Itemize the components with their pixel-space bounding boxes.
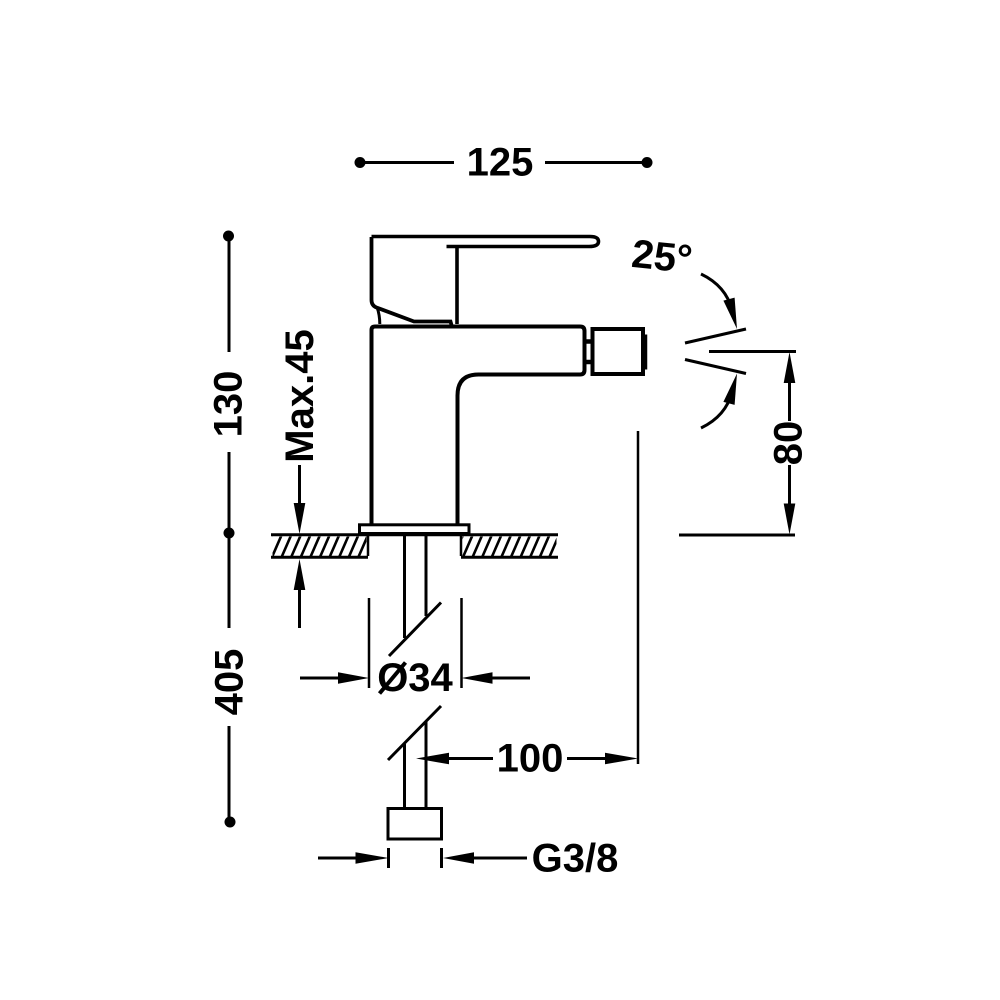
dimension 100 extension line (outlet axis) [637,431,640,764]
svg-text:O34: O34 [377,656,453,700]
svg-text:100: 100 [497,737,564,781]
handle chamfer sliver edge [377,307,380,324]
deck hole left edge [367,536,370,556]
G3/8 left tick [387,848,390,868]
dimension 130/405 shared dot [224,528,235,539]
dimension 80 bottom reference line [679,534,795,537]
diameter symbol slash [380,663,406,694]
handle lever blade [372,237,599,247]
diameter 34 left extension line [368,598,371,688]
dimension 80 line lower segment [788,465,791,505]
G3/8 left arrow line [318,857,358,860]
diameter 34 left arrow line [300,677,340,680]
supply pipe left line lower segment [403,744,406,808]
dimension 405 bottom dot [225,817,236,828]
deck bottom line right [461,556,558,559]
supply pipe right line lower segment [425,722,428,808]
faucet body outline [372,327,585,525]
handle lever stem front edge [455,247,459,324]
25 deg upper curved arrow [701,274,732,310]
stream angle upper line [685,329,746,343]
diameter 34 right arrow line [492,677,530,680]
stream angle lower line [685,360,746,374]
deck top line [271,533,558,536]
dimension 80 down arrowhead [784,504,796,535]
Max.45 up arrowhead [294,559,306,590]
dimension 125 horizontal line left segment [360,161,454,164]
svg-text:130: 130 [207,371,251,438]
svg-text:125: 125 [467,141,534,185]
svg-text:80: 80 [767,421,811,466]
25 deg lower curved arrow [701,392,732,428]
diameter 34 right arrowhead [462,672,493,684]
G3/8 right arrowhead [443,852,474,864]
G3/8 right arrow line [474,857,527,860]
Max.45 down arrowhead [294,503,306,534]
dimension 405 line upper segment [228,538,231,628]
aerator body [593,329,644,374]
diameter 34 left arrowhead [338,672,369,684]
deck hatching left block [262,535,387,558]
pipe break diagonal lower [388,706,441,760]
dimension 80 line upper segment [788,381,791,421]
svg-text:G3/8: G3/8 [532,837,619,881]
dimension 125 horizontal line right segment [545,161,647,164]
aerator joint upper stub [587,339,593,344]
dimension 100 right line [567,757,606,760]
dimension 405 line lower segment [228,726,231,818]
svg-text:Max.45: Max.45 [278,329,322,462]
diameter 34 right extension line [460,598,463,688]
G3/8 right tick [440,848,443,868]
stream horizontal reference line [709,350,796,353]
G3/8 left arrowhead [356,852,389,864]
Max.45 down arrow line [298,465,301,506]
G3/8 connector block [388,809,442,840]
pipe break diagonal upper [389,603,441,657]
Max.45 up arrow line (below deck) [298,588,301,628]
aerator end cap [643,335,648,370]
aerator joint lower stub [587,360,593,365]
svg-text:25°: 25° [630,232,695,282]
base flange [360,525,470,534]
deck bottom line left [271,556,368,559]
dimension 130 line lower segment [228,452,231,529]
supply pipe left line upper segment [403,534,406,638]
dimension 100 left arrowhead [416,753,449,765]
handle body left edge and chamfer [372,237,452,325]
dimension 100 right arrowhead [605,753,638,765]
dimension 130 top dot [223,231,234,242]
supply pipe right line upper segment [425,534,428,616]
deck hatching right block [453,535,578,558]
dimension 125 right end dot [642,157,653,168]
deck hole right edge [460,536,463,556]
dimension 80 up arrowhead [784,352,796,383]
svg-text:405: 405 [208,649,252,716]
dimension 130 line upper segment [228,240,231,352]
dimension 100 left line [449,757,493,760]
dimension 125 left end dot [355,157,366,168]
